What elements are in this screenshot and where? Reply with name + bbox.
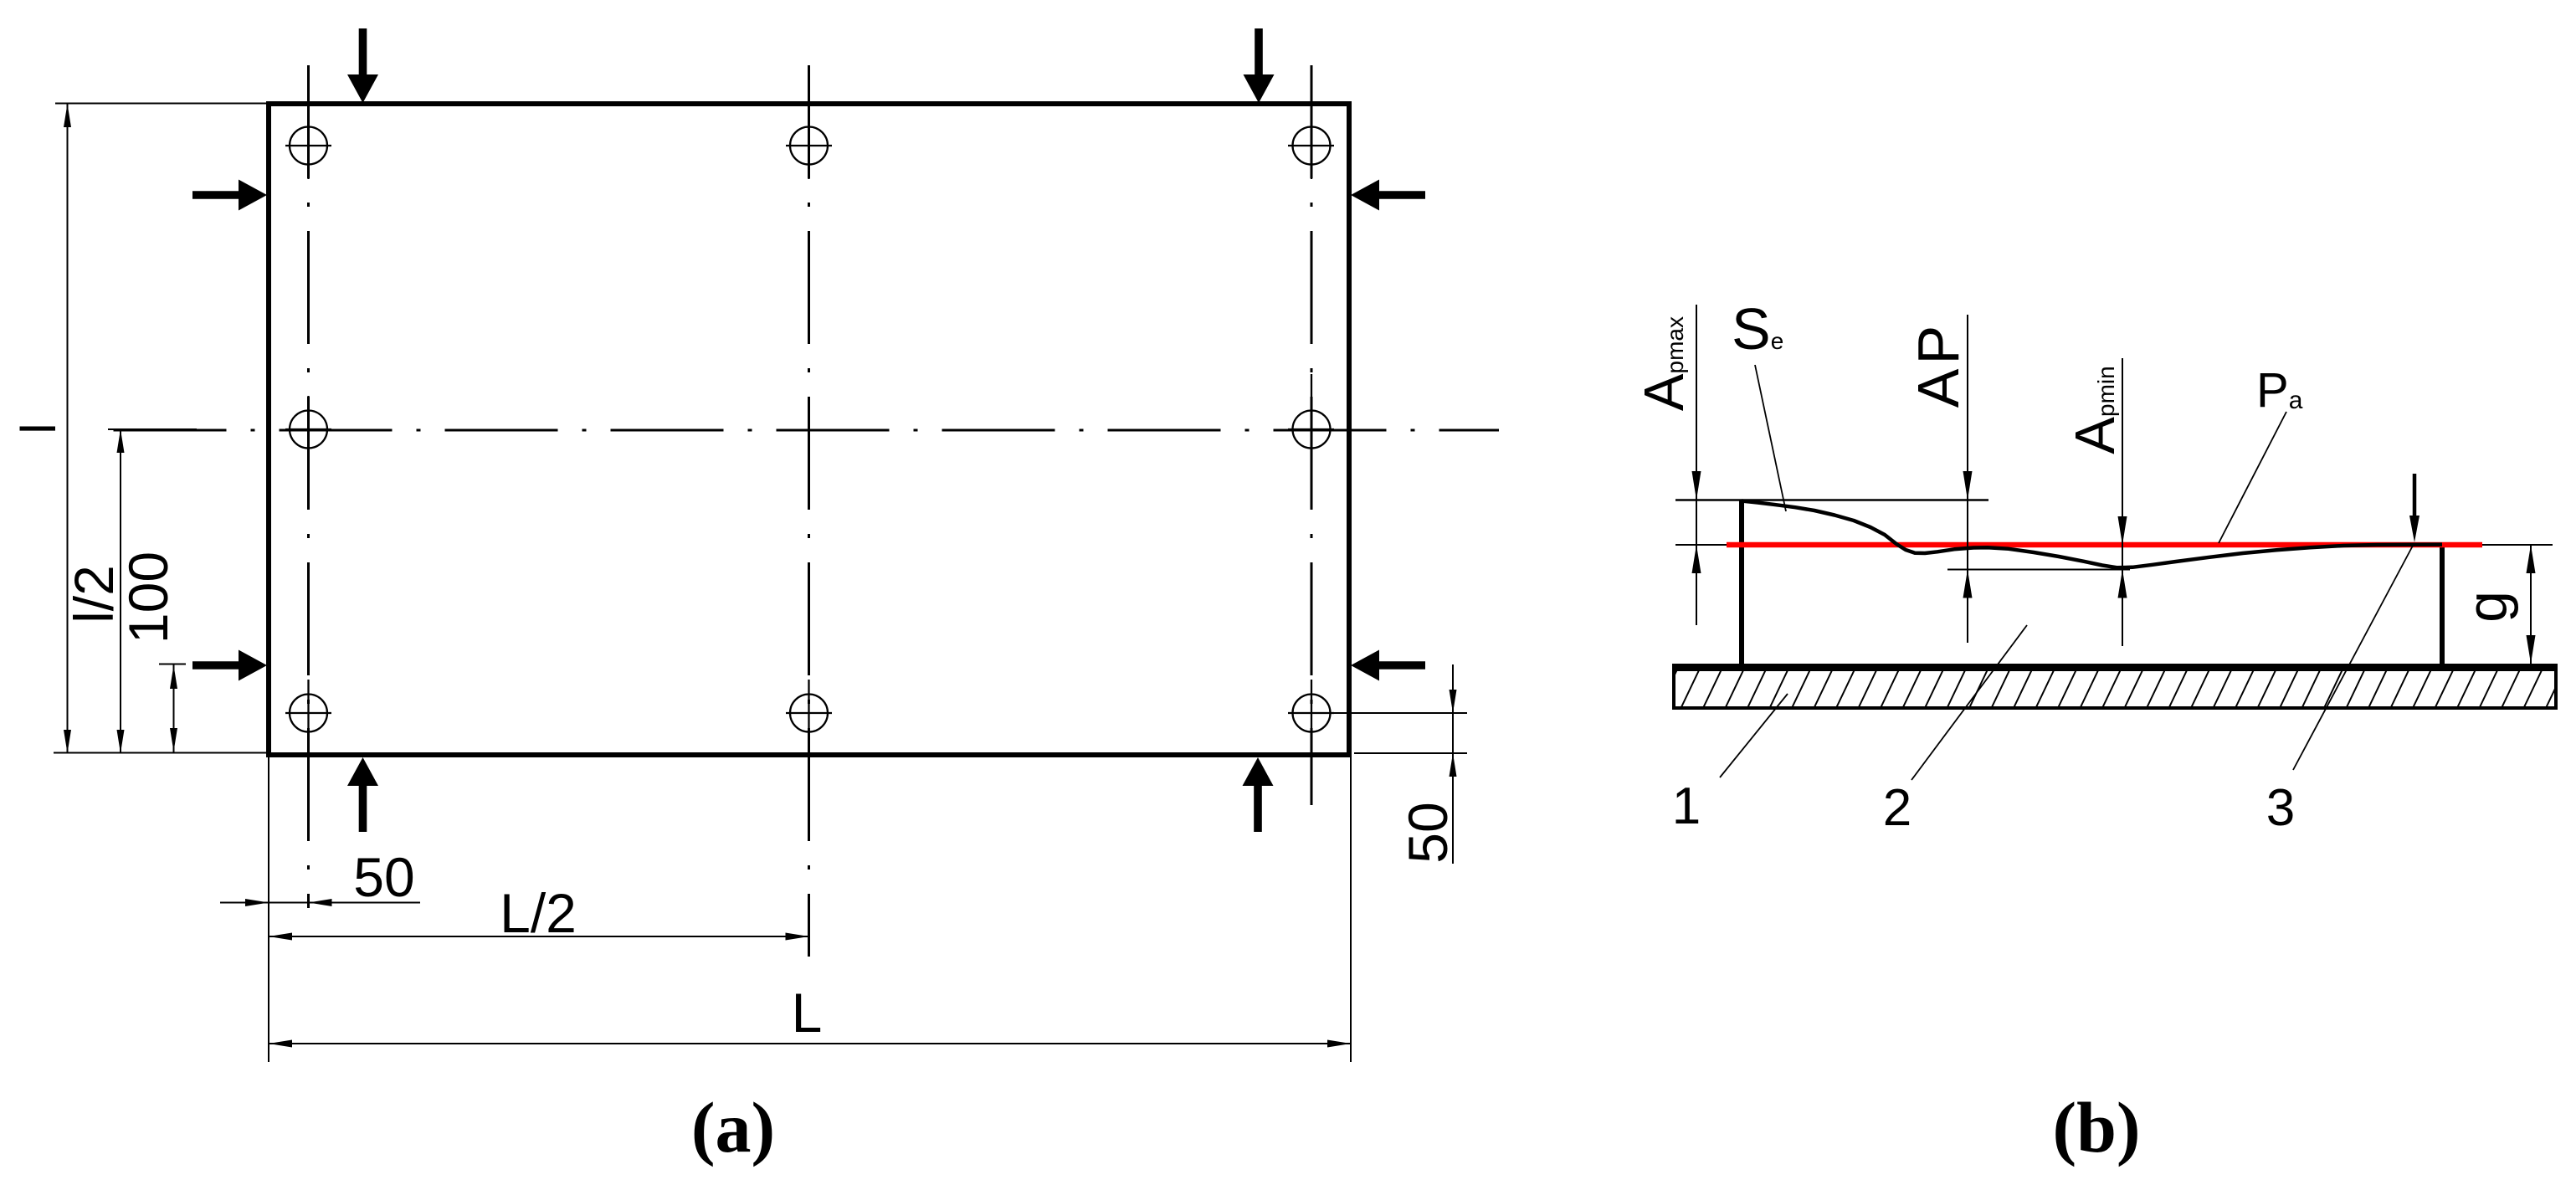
dimension line Apmax	[1692, 305, 1701, 625]
measurement point bottom-left	[285, 680, 331, 746]
leader 2	[1911, 625, 2027, 780]
extension line bottom edge right	[1354, 752, 1467, 754]
dimension line Apmin	[2118, 358, 2127, 646]
measurement point mid-left	[285, 396, 331, 463]
extension tick load row	[159, 664, 186, 665]
contact arrow	[2409, 474, 2419, 542]
dimension line L/2	[269, 933, 809, 941]
extension line circle row right	[1331, 712, 1467, 714]
dimension line l/2	[117, 429, 125, 753]
svg-text:l: l	[12, 423, 66, 434]
centerline horizontal	[108, 429, 1499, 432]
load arrow bottom-left	[347, 757, 378, 832]
dimension line 100	[170, 664, 177, 754]
svg-text:3: 3	[2266, 779, 2295, 837]
svg-text:AP: AP	[1906, 321, 1971, 408]
svg-text:L: L	[792, 982, 823, 1044]
svg-text:50: 50	[353, 846, 414, 908]
extension line centerline-left	[108, 428, 197, 430]
base hatched block	[1659, 670, 2564, 708]
leader 3	[2293, 546, 2413, 770]
load arrow top-left	[347, 28, 378, 103]
measurement point top-left	[285, 112, 331, 179]
leader 1	[1720, 694, 1788, 777]
centerline vertical column 1	[307, 65, 310, 908]
svg-text:g: g	[2455, 591, 2519, 623]
leader Se	[1755, 365, 1786, 511]
plate outline	[269, 104, 1349, 755]
svg-text:(b): (b)	[2052, 1087, 2140, 1167]
measurement point bottom-middle	[786, 680, 832, 746]
extension line profile min	[1947, 569, 2130, 571]
svg-text:(a): (a)	[691, 1087, 775, 1167]
extension line plate left edge below	[268, 757, 269, 1062]
surface profile curve	[1742, 501, 2442, 568]
load arrow left-bottom	[192, 650, 267, 681]
base top line	[1672, 664, 2558, 670]
leader Pa	[2219, 412, 2286, 543]
dimension line g	[2527, 545, 2536, 664]
measurement point mid-right	[1288, 374, 1334, 492]
svg-text:50: 50	[1397, 802, 1459, 863]
measurement point top-right	[1288, 112, 1334, 179]
extension line red left	[1675, 544, 1727, 546]
extension line plate right edge below	[1350, 757, 1352, 1062]
dimension line L	[269, 1040, 1351, 1048]
dimension line l	[64, 104, 71, 753]
dimension line 50 right	[1450, 664, 1457, 864]
svg-text:1: 1	[1672, 777, 1701, 835]
measurement point bottom-right	[1288, 680, 1334, 746]
extension line top-left	[55, 103, 266, 105]
svg-text:2: 2	[1883, 779, 1911, 837]
load arrow left-top	[192, 180, 267, 211]
measurement point top-middle	[786, 112, 832, 179]
specimen right edge	[2440, 544, 2445, 664]
load arrow bottom-right	[1243, 757, 1274, 832]
extension line red right	[2482, 544, 2553, 546]
dimension line AP	[1963, 315, 1973, 643]
dimension line 50 bottom	[220, 899, 420, 906]
centerline vertical column 2	[808, 65, 810, 957]
load arrow right-top	[1351, 180, 1425, 211]
svg-text:L/2: L/2	[500, 882, 577, 944]
svg-text:l/2: l/2	[63, 565, 125, 623]
load arrow right-bottom	[1351, 650, 1425, 681]
extension line bottom-left	[54, 752, 266, 754]
specimen left edge	[1739, 500, 1744, 664]
centerline vertical column 3	[1311, 65, 1313, 805]
load arrow top-right	[1243, 28, 1274, 103]
svg-text:100: 100	[117, 552, 179, 644]
extension line profile top	[1675, 499, 1988, 500]
reference line Pa (red)	[1727, 542, 2482, 548]
